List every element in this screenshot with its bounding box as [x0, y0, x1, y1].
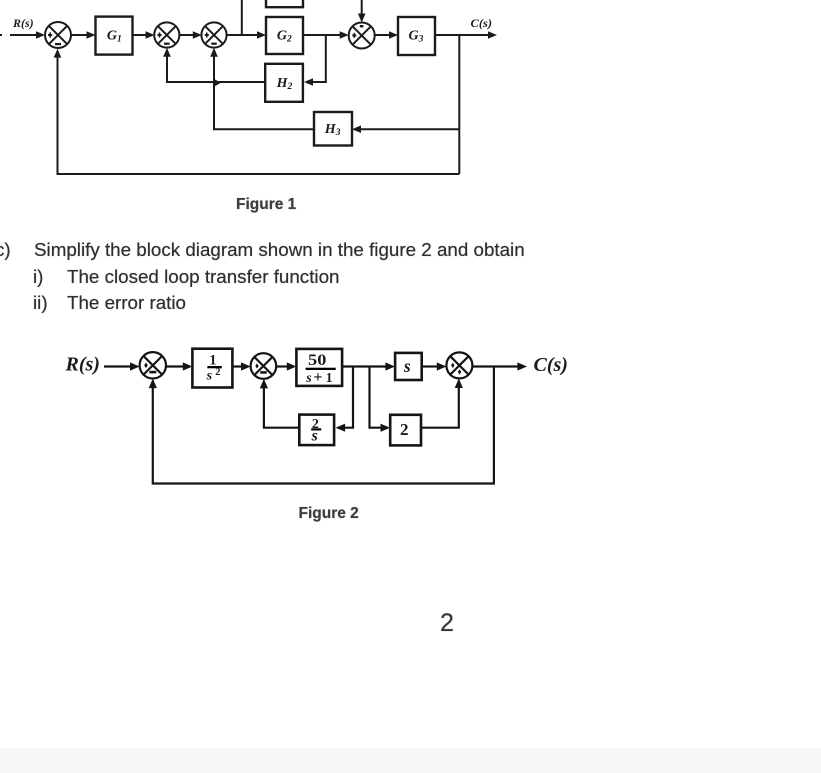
- svg-text:s: s: [305, 371, 312, 386]
- paragraph c): [0, 239, 11, 261]
- arrowhead into F2-S2: [241, 362, 251, 370]
- sign minus S3 bottom: [211, 43, 217, 45]
- summing junction F2-S1: [140, 352, 166, 378]
- sign plus S3 left: [205, 33, 209, 38]
- arrowhead into F2-S3: [437, 362, 447, 370]
- bottom gray bar: [0, 748, 821, 773]
- arrowhead up into S1 bottom: [54, 49, 62, 58]
- wire H1 down into S4 top: [361, 0, 363, 14]
- sign plus S4 left: [352, 33, 356, 38]
- wire takeoff down to H2 input: [313, 35, 326, 82]
- wire outer feedback loop: [153, 367, 494, 484]
- svg-text:G2: G2: [277, 28, 292, 44]
- block 2/s: [299, 415, 334, 446]
- summing junction F2-S2: [251, 353, 277, 379]
- svg-text:H2: H2: [276, 76, 293, 92]
- arrowhead into S2: [146, 31, 155, 39]
- arrowhead S4 top input: [358, 14, 366, 23]
- caption Figure 2: [299, 505, 359, 523]
- wire S2 to S3: [179, 34, 193, 36]
- block 50/(s+1): [296, 349, 342, 386]
- arrowhead junction mark at H2/H3 line crossing: [213, 78, 221, 87]
- sign minus F2-S1 bottom: [149, 371, 156, 374]
- svg-text:s: s: [206, 369, 213, 384]
- svg-text:2: 2: [215, 367, 220, 378]
- arrowhead C(s) output: [488, 31, 497, 39]
- arrowhead into G2: [257, 31, 266, 39]
- arrowhead up into F2-S3 bottom: [455, 378, 463, 388]
- svg-text:C(s): C(s): [534, 354, 568, 376]
- sign plus S1 left: [48, 32, 52, 37]
- wire H3 input from takeoff: [361, 128, 459, 130]
- wire takeoff up to H1: [241, 0, 243, 35]
- summing junction F2-S3: [446, 352, 472, 378]
- svg-text:C(s): C(s): [471, 16, 493, 30]
- block H2: [265, 64, 303, 102]
- wire G1 to S2: [133, 34, 147, 36]
- wire block 2 output up into F2-S3: [421, 388, 459, 428]
- sign minus S1 bottom: [55, 43, 61, 45]
- wire takeoff down to 2/s input: [344, 367, 353, 428]
- wire G3 output to C(s): [435, 34, 489, 36]
- arrowhead into G1: [87, 31, 96, 39]
- block G3: [398, 17, 435, 55]
- wire F2-S1 to block 1/s2: [166, 365, 184, 367]
- arrowhead into G3: [389, 31, 398, 39]
- svg-text:H3: H3: [324, 122, 341, 138]
- wire G2 to S4 with takeoff at x=325.8: [303, 34, 340, 36]
- arrowhead into 2/s right side: [336, 424, 346, 432]
- arrowhead into F2-S1: [130, 362, 140, 370]
- svg-text:2: 2: [400, 420, 409, 439]
- wire S3 to G2 with takeoff to H1: [226, 34, 257, 36]
- wire R(s) input: [10, 34, 36, 36]
- wire F2-S2 to block 50/s+1: [276, 365, 288, 367]
- block G1: [96, 17, 133, 55]
- caption Figure 1: [236, 196, 296, 214]
- arrowhead up into S3 bottom: [210, 48, 218, 57]
- block 2: [390, 415, 421, 446]
- summing junction S3: [201, 22, 226, 47]
- wire R(s) input: [104, 365, 131, 367]
- wire S1 to G1: [71, 34, 87, 36]
- sign plus F2-S1 left: [144, 363, 148, 369]
- arrowhead into H2 right side: [304, 78, 313, 86]
- svg-text:G3: G3: [409, 28, 424, 44]
- arrowhead into block 50/s+1: [287, 362, 297, 370]
- item ii): [33, 292, 48, 314]
- wire C takeoff down to H3 and outer loop: [458, 35, 460, 174]
- summing junction S4: [349, 23, 375, 49]
- wire F2-S3 to C(s): [472, 365, 518, 367]
- svg-text:R(s): R(s): [12, 16, 34, 30]
- sign minus F2-S2 bottom: [260, 371, 267, 374]
- block s: [395, 353, 422, 380]
- summing junction S2: [154, 22, 179, 47]
- wire s to F2-S3: [423, 365, 438, 367]
- sign plus F2-S2 left: [255, 363, 258, 368]
- arrowhead into block s: [385, 362, 395, 370]
- arrowhead up into S2 bottom: [163, 48, 171, 57]
- arrowhead into block 2 left side: [381, 424, 391, 432]
- arrowhead up into F2-S1 bottom: [149, 379, 157, 389]
- block 1/s^2: [192, 349, 232, 388]
- wire S4 to G3: [375, 34, 389, 36]
- sign plus S2 left: [158, 33, 162, 38]
- block G2: [266, 17, 303, 54]
- sign minus S2 bottom: [164, 43, 170, 45]
- item i): [33, 266, 43, 288]
- wire 2/s output up into F2-S2: [264, 388, 300, 428]
- summing junction S1: [45, 22, 71, 48]
- svg-text:1: 1: [209, 352, 216, 368]
- arrowhead into S4: [340, 31, 349, 39]
- wire 1/s2 to F2-S2: [232, 365, 242, 367]
- sign plus F2-S3 bottom: [458, 369, 461, 374]
- arrowhead into block 1/s2: [183, 362, 193, 370]
- block H3: [314, 112, 352, 146]
- svg-text:50: 50: [308, 352, 327, 369]
- sign plus F2-S3 left: [451, 363, 454, 368]
- arrowhead into H3 right side: [352, 125, 361, 133]
- block H1 (cut off at top): [266, 0, 303, 7]
- wire H3 output to S3: [214, 56, 314, 129]
- wire stub at page edge: [0, 34, 2, 36]
- svg-text:+: +: [313, 369, 322, 386]
- svg-text:s: s: [403, 356, 411, 376]
- sign plus S4 top: [360, 25, 364, 27]
- wire outer feedback loop to S1: [58, 56, 460, 174]
- arrowhead up into F2-S2 bottom: [260, 379, 268, 389]
- arrowhead C(s) output: [517, 362, 527, 370]
- arrowhead into S3: [193, 31, 202, 39]
- arrowhead into S1: [36, 31, 45, 39]
- wire 50/s+1 to block s with takeoffs: [342, 365, 386, 367]
- svg-text:s: s: [311, 428, 318, 445]
- svg-text:1: 1: [326, 370, 333, 385]
- wire takeoff down to block 2 input: [370, 367, 382, 428]
- page number 2: [440, 609, 454, 638]
- svg-text:G1: G1: [107, 28, 122, 44]
- wire H2 output to S2: [167, 56, 266, 82]
- svg-text:R(s): R(s): [65, 354, 100, 376]
